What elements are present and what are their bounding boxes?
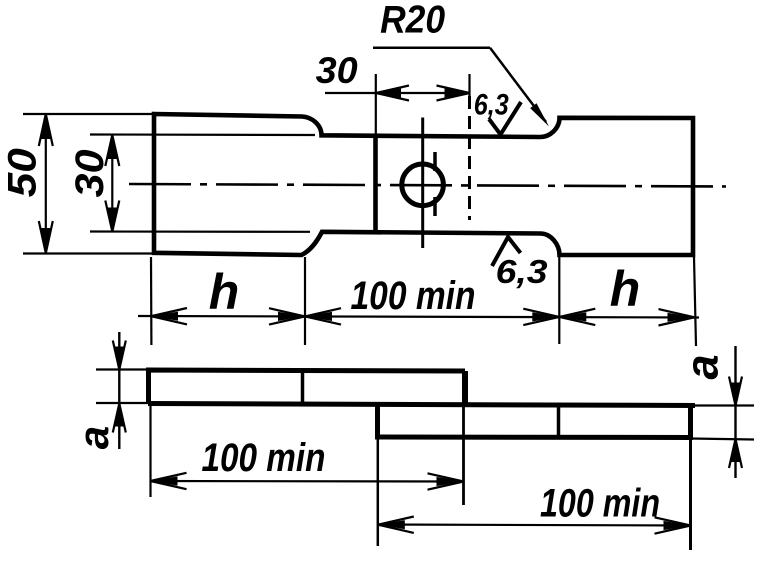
svg-text:h: h (610, 261, 641, 317)
svg-text:a: a (70, 426, 117, 449)
svg-text:100 min: 100 min (540, 482, 660, 526)
svg-text:R20: R20 (380, 0, 445, 42)
svg-text:6,3: 6,3 (496, 253, 548, 290)
svg-text:6,3: 6,3 (474, 89, 509, 122)
svg-text:30: 30 (316, 50, 358, 91)
svg-text:100 min: 100 min (351, 274, 476, 318)
svg-text:h: h (209, 264, 240, 320)
svg-text:100 min: 100 min (202, 436, 326, 480)
svg-text:a: a (677, 354, 728, 379)
svg-text:30: 30 (68, 150, 112, 198)
svg-text:50: 50 (1, 148, 45, 197)
